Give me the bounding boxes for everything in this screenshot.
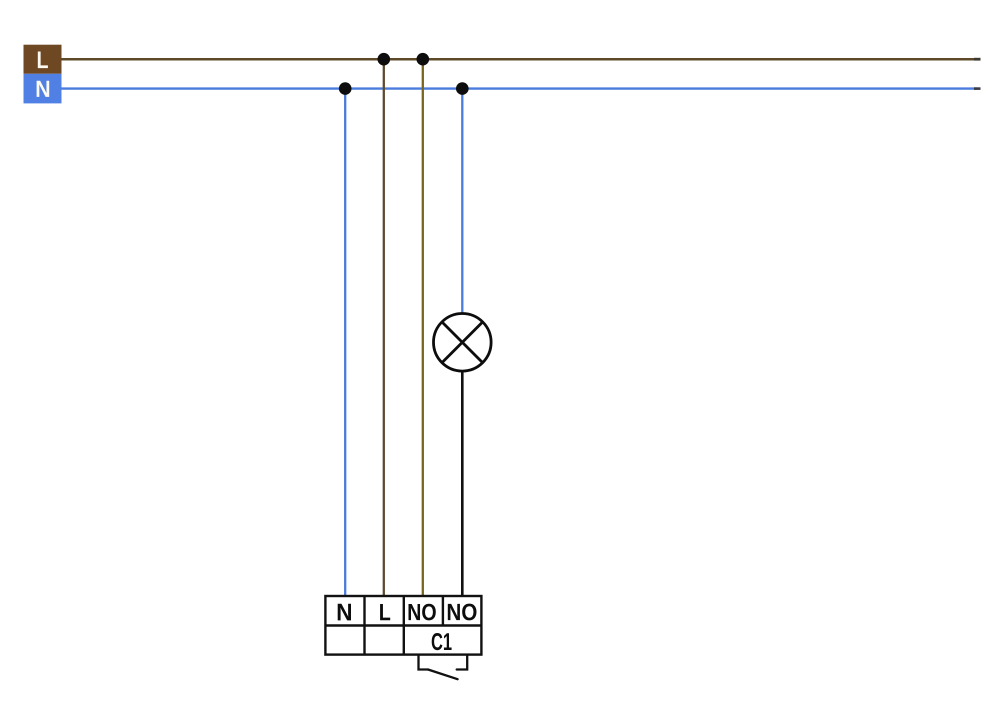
wire: brown drop from L bus to terminal L: [383, 59, 385, 596]
wire: olive-brown drop from L bus to terminal NO: [422, 59, 424, 596]
terminal block outline: [325, 596, 481, 655]
switch contact C1 (normally open): [419, 655, 468, 680]
terminal block row divider: [325, 624, 481, 626]
wire end tip: N bus: [974, 87, 981, 90]
junction dot on N bus at x=462.3: [456, 82, 469, 95]
junction dot on L bus at x=422.8: [417, 53, 430, 66]
wire: N bus horizontal (blue): [62, 87, 978, 89]
terminal label L: [380, 604, 390, 620]
terminal label NO (pin 4): [448, 604, 477, 621]
wire end tip: L bus: [974, 58, 981, 61]
terminal block divider N|L: [363, 596, 365, 655]
wire: blue drop from N bus to lamp: [461, 89, 463, 314]
net label N (blue box): [24, 74, 62, 104]
terminal label NO (pin 3): [409, 604, 436, 621]
wire: black from lamp to terminal NO: [461, 371, 464, 597]
switch left pin: [419, 655, 429, 670]
terminal block divider L|NO: [403, 596, 405, 655]
junction dot on L bus at x=383.8: [378, 53, 391, 66]
contact label C1: [432, 633, 452, 650]
lamp E1 (circle with cross): [434, 314, 492, 372]
terminal block divider NO|NO (top row only): [442, 596, 444, 626]
switch right pin: [457, 655, 468, 670]
terminal label N: [338, 604, 351, 621]
switch blade: [428, 670, 458, 680]
junction dot on N bus at x=345.2: [339, 82, 352, 95]
wire: L bus horizontal (brown): [62, 58, 978, 61]
wire: blue drop from N bus to terminal N: [344, 89, 346, 596]
net label L (brown box): [24, 45, 62, 74]
